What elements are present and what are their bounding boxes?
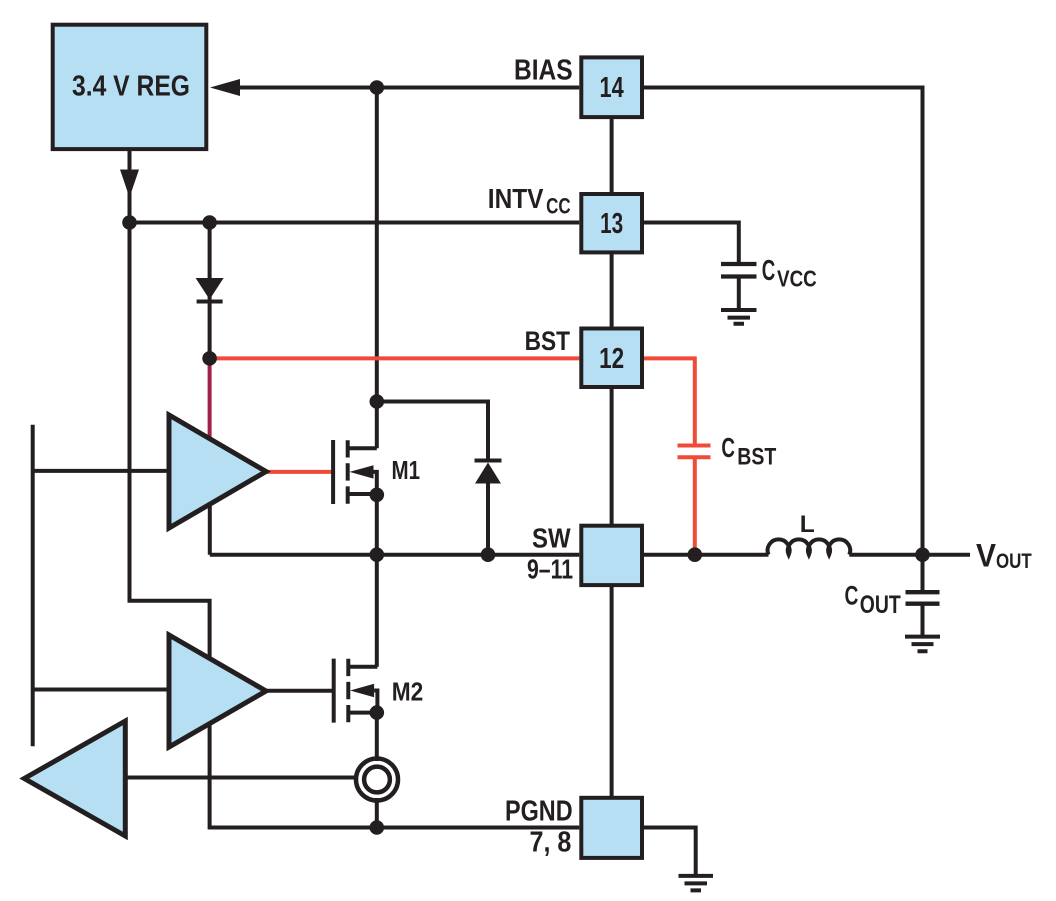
wire pin12 to SW pin <box>610 389 614 526</box>
wire diode D1 branch <box>208 223 212 359</box>
wire diode D2 to SW net <box>486 482 490 555</box>
diode D1 <box>196 278 224 302</box>
svg-text:OUT: OUT <box>996 550 1032 573</box>
svg-text:PGND: PGND <box>505 796 573 828</box>
wire INTVCC step down to PGND <box>130 223 580 828</box>
svg-text:VCC: VCC <box>777 266 817 292</box>
capacitor CBST plates <box>678 446 711 458</box>
svg-text:CC: CC <box>546 193 571 218</box>
junction PGND at circle <box>370 820 385 835</box>
junction M2 source node <box>370 705 385 720</box>
wire M1 source to M2 drain <box>375 494 379 667</box>
wire pin14 to pin13 <box>610 119 614 194</box>
transistor M2 <box>334 659 378 723</box>
svg-text:SW: SW <box>532 522 571 553</box>
driver3 triangle <box>24 721 125 836</box>
svg-text:7, 8: 7, 8 <box>530 827 572 859</box>
ground at CVCC <box>721 310 757 324</box>
junction BIAS rail <box>370 80 385 95</box>
svg-text:BST: BST <box>525 326 571 356</box>
inductor L <box>768 539 851 554</box>
svg-text:M1: M1 <box>392 455 421 485</box>
wire M1 drain node <box>377 402 488 463</box>
wire driver2 output to M2 gate <box>262 689 334 693</box>
wire CBST to SW node (red) <box>693 457 697 552</box>
wire BIAS pin to regulator <box>238 86 579 90</box>
regulator box 3.4V REG <box>53 25 207 149</box>
wire SW pin to inductor <box>644 553 769 557</box>
wire pin13 to pin12 <box>610 254 614 329</box>
junction M1 drain node <box>370 394 385 409</box>
transistor M1 <box>333 440 377 504</box>
wire driver1 output (red) <box>262 470 333 474</box>
svg-text:BIAS: BIAS <box>514 55 573 87</box>
wire COUT to ground <box>921 604 925 637</box>
wire SW net left <box>210 553 580 557</box>
svg-text:C: C <box>721 432 735 463</box>
wire inductor to VOUT <box>849 553 970 557</box>
pin box SW <box>581 526 642 585</box>
junction M1 source node <box>370 488 385 503</box>
wire M2 source to sense circle <box>375 713 379 761</box>
svg-text:9–11: 9–11 <box>527 554 573 585</box>
wire BST red right to CBST <box>644 358 695 443</box>
arrow regulator output down <box>120 170 139 198</box>
junction INTVCC diode branch <box>202 215 217 230</box>
pin box 12 <box>581 329 642 388</box>
capacitor CVCC <box>721 264 757 277</box>
driver1 triangle <box>169 415 266 528</box>
wire CVCC to ground <box>737 277 741 310</box>
wire regulator output <box>128 151 132 223</box>
wire INTVCC <box>130 221 580 225</box>
wire BST red left <box>210 356 580 360</box>
junction BST node <box>202 351 217 366</box>
svg-text:L: L <box>800 511 815 538</box>
svg-text:C: C <box>762 255 776 287</box>
svg-text:13: 13 <box>600 208 623 240</box>
svg-text:12: 12 <box>599 343 624 375</box>
junction VOUT node <box>915 547 930 562</box>
junction SW at CBST <box>688 547 703 562</box>
wire INTVCC to CVCC <box>644 223 739 263</box>
wire sense circle to driver3 <box>126 776 357 780</box>
wire driver1 to SW net <box>208 502 212 555</box>
junction SW at M1 <box>370 547 385 562</box>
svg-text:M2: M2 <box>392 677 424 707</box>
svg-text:OUT: OUT <box>860 591 901 619</box>
diode D2 <box>475 461 502 484</box>
arrow into regulator <box>210 79 240 96</box>
current sense circle <box>356 759 398 801</box>
ground at COUT <box>905 637 940 652</box>
wire BST to driver1 (crimson) <box>208 358 212 440</box>
wire driver2 input <box>33 688 172 692</box>
pin box PGND <box>581 798 642 858</box>
wire sense circle to PGND net <box>375 798 379 828</box>
capacitor COUT <box>906 592 940 604</box>
ground at PGND <box>679 876 714 891</box>
control bus stub <box>31 425 35 747</box>
svg-text:3.4 V REG: 3.4 V REG <box>72 71 190 103</box>
svg-text:BST: BST <box>737 444 776 471</box>
wire BIAS junction down to M1 drain node <box>375 88 379 402</box>
svg-text:INTV: INTV <box>488 183 544 214</box>
wire SW pin to PGND pin <box>610 585 614 798</box>
wire PGND pin to ground <box>644 828 696 875</box>
junction INTVCC left <box>122 215 137 230</box>
wire BIAS pin to VOUT rail <box>644 88 923 593</box>
wire driver1 input <box>33 469 172 473</box>
pin box 14 <box>581 57 642 117</box>
svg-text:V: V <box>976 537 997 573</box>
junction SW at D2 <box>481 547 496 562</box>
svg-text:14: 14 <box>600 72 624 104</box>
pin box 13 <box>581 194 642 252</box>
svg-text:C: C <box>845 581 859 611</box>
driver2 triangle <box>169 635 266 747</box>
